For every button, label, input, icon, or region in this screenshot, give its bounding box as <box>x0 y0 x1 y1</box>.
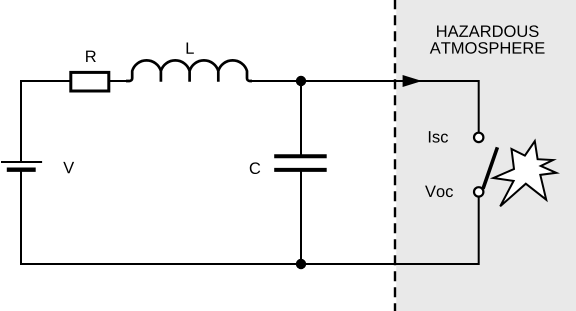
wire: inductor right, across boundary, down to switch <box>251 81 479 133</box>
hazardous area background <box>396 0 576 311</box>
inductor L <box>126 60 252 81</box>
capacitor C plate top <box>274 154 327 158</box>
wire: resistor to inductor <box>109 80 127 82</box>
label V <box>63 162 74 173</box>
wire: capacitor branch lower <box>300 172 302 265</box>
spark starburst <box>493 141 556 206</box>
switch contact Isc (top, open circle) <box>474 133 483 142</box>
switch arm (open blade) <box>483 147 497 189</box>
wire: source V down, bottom rail, up to switch contact Voc <box>21 172 479 265</box>
resistor R <box>71 72 109 91</box>
label C <box>250 162 260 174</box>
node: junction at bottom of capacitor branch <box>296 259 306 269</box>
arrowhead: current into hazardous area <box>403 75 422 87</box>
battery source V plate short thick <box>7 167 36 171</box>
battery source V plate long <box>1 161 42 163</box>
capacitor C plate bottom <box>274 168 327 172</box>
wire: top-left from source V up and right to resistor <box>21 81 71 162</box>
label Isc <box>429 131 448 143</box>
switch contact Voc (bottom, open circle) <box>474 187 483 196</box>
wire: capacitor branch upper <box>300 81 302 155</box>
node: junction at top of capacitor branch <box>296 76 306 86</box>
label HAZARDOUS <box>437 25 538 37</box>
label R <box>86 51 96 62</box>
hazardous area boundary (dashed) <box>394 0 396 311</box>
label L <box>187 42 194 53</box>
label ATMOSPHERE <box>430 42 545 54</box>
label Voc <box>425 186 453 198</box>
